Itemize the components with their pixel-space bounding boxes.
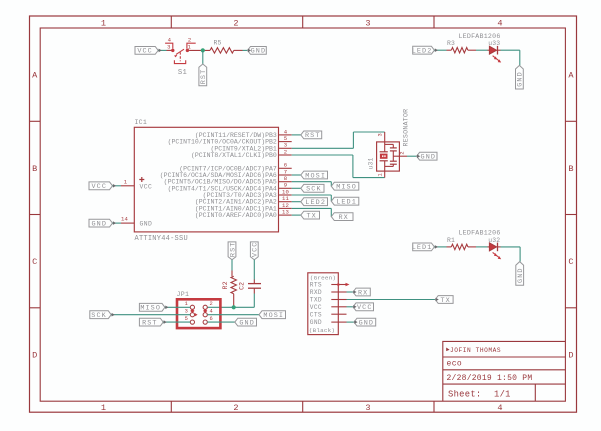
- connector FTDI body: [308, 273, 339, 335]
- node GND (flag top): [248, 47, 267, 55]
- JP1 pin 2: [203, 305, 207, 309]
- IC1 pin 6 ((PCINT7/ICP/OC0B/ADC7)PA7): [279, 167, 292, 169]
- node MISO (flag at pin 8): [331, 182, 359, 190]
- svg-text:(PCINT8/XTAL1/CLKI)PB0: (PCINT8/XTAL1/CLKI)PB0: [191, 152, 277, 159]
- svg-text:1: 1: [187, 44, 191, 51]
- wire C2 to RST net: [253, 288, 255, 293]
- FTDI RTS open-wire arrow: [346, 283, 350, 287]
- svg-text:MOSI: MOSI: [305, 172, 326, 180]
- svg-text:GND: GND: [251, 48, 267, 56]
- wire pin8 to MISO label: [292, 181, 332, 183]
- svg-text:R2: R2: [222, 281, 229, 289]
- svg-text:R5: R5: [213, 40, 221, 47]
- node GND (flag below u32): [516, 262, 524, 286]
- svg-text:R1: R1: [447, 237, 455, 244]
- svg-text:IC1: IC1: [135, 119, 147, 126]
- svg-text:3: 3: [167, 44, 170, 51]
- resonator pin 2 (GND): [393, 155, 399, 157]
- wire junction to JP1 pin 2: [207, 306, 233, 308]
- wire JP1 pin 6 to GND: [207, 321, 235, 323]
- wire pin13 to TX label: [292, 214, 301, 216]
- JP1 pin 1: [190, 305, 194, 309]
- wire LED1 flag to R1: [434, 246, 446, 248]
- svg-text:LEDFAB1206: LEDFAB1206: [458, 230, 500, 237]
- svg-text:1/1: 1/1: [494, 389, 511, 399]
- JP1 pin 3: [190, 313, 194, 317]
- svg-text:LEDFAB1206: LEDFAB1206: [458, 33, 500, 40]
- LED u32 emission arrows: [493, 252, 496, 254]
- svg-text:GND: GND: [91, 220, 107, 228]
- svg-text:6: 6: [210, 316, 213, 322]
- node MISO (flag at JP1 pin1): [139, 303, 165, 311]
- wire pin7 to MOSI label: [292, 174, 301, 176]
- wire R2 to junction: [233, 294, 235, 308]
- svg-text:GND: GND: [310, 319, 322, 326]
- svg-text:RST: RST: [200, 69, 208, 85]
- svg-text:VCC: VCC: [252, 242, 260, 258]
- drawing frame inner border: [40, 28, 565, 401]
- svg-text:(Green): (Green): [310, 274, 336, 281]
- resonator pin 3 (top): [384, 132, 386, 142]
- node VCC (flag at IC pin 1): [89, 182, 113, 190]
- node GND (flag below u33): [516, 65, 524, 89]
- IC1 pin 12 ((PCINT1/AIN0/ADC1)PA1): [279, 207, 292, 209]
- svg-text:2/28/2019 1:50 PM: 2/28/2019 1:50 PM: [447, 374, 533, 383]
- svg-text:VCC: VCC: [140, 183, 153, 190]
- node GND (flag at JP1 pin6): [235, 318, 257, 326]
- svg-text:1: 1: [101, 403, 106, 413]
- svg-text:2: 2: [400, 151, 406, 154]
- svg-text:1: 1: [378, 173, 384, 176]
- svg-text:1: 1: [185, 301, 188, 307]
- svg-text:3: 3: [378, 133, 384, 136]
- resonator internal capacitors: [385, 143, 394, 145]
- node VCC (vertical flag above C2): [250, 242, 258, 260]
- wire RST to JP1 pin 5: [163, 321, 190, 323]
- IC1 pin 9 ((PCINT4/T1/SCL/USCK/ADC4)PA4): [279, 187, 292, 189]
- svg-text:B: B: [32, 164, 37, 174]
- svg-text:RX: RX: [338, 214, 348, 222]
- resonator pin 1 (bottom): [384, 171, 386, 178]
- JP1 pin 5: [190, 320, 194, 324]
- wire SCK to JP1 pin 3: [111, 314, 190, 316]
- IC1 pin 4 ((PCINT11/RESET/DW)PB3): [279, 134, 292, 136]
- svg-text:C: C: [568, 257, 573, 267]
- node VCC (flag at FTDI): [353, 303, 374, 311]
- LED u32: [488, 246, 490, 248]
- svg-text:5: 5: [185, 316, 188, 322]
- svg-text:2: 2: [284, 148, 287, 155]
- svg-text:D: D: [568, 350, 573, 360]
- JP1 key diamonds: [190, 309, 194, 313]
- wire VCC flag to C2: [253, 260, 255, 280]
- resonator u31 body: [377, 142, 400, 171]
- S1 plunger dashed stem: [179, 52, 181, 61]
- svg-text:C2: C2: [238, 282, 245, 290]
- LED u33 emission arrows: [493, 56, 496, 58]
- svg-text:2: 2: [233, 18, 238, 28]
- frame row ticks left: [30, 120, 41, 122]
- IC1 pin 14 (GND): [121, 222, 134, 224]
- svg-text:SCK: SCK: [306, 186, 322, 194]
- wire pin3 to resonator top: [292, 147, 354, 149]
- svg-text:GND: GND: [421, 154, 437, 162]
- svg-text:A: A: [568, 71, 574, 81]
- svg-text:Sheet:: Sheet:: [448, 389, 481, 399]
- junction RST net at JP1: [232, 305, 236, 309]
- IC1 pin 7 ((PCINT6/OC1A/SDA/MOSI/ADC6)PA6): [279, 174, 292, 176]
- node RST (flag at JP1 pin5): [139, 318, 163, 326]
- node GND (flag at resonator): [417, 152, 437, 160]
- svg-text:RST: RST: [229, 242, 237, 258]
- wire RXD to RX: [347, 291, 354, 293]
- node MOSI (flag at pin 7): [301, 171, 328, 179]
- svg-text:GND: GND: [140, 221, 153, 228]
- svg-text:1: 1: [101, 18, 106, 28]
- svg-text:GND: GND: [517, 267, 525, 283]
- resistor R3: [451, 48, 468, 53]
- node GND (flag at FTDI): [354, 318, 376, 326]
- frame column ticks bottom: [170, 401, 172, 412]
- wire R1 to LED u32: [468, 246, 476, 248]
- junction on RST net: [201, 48, 205, 52]
- svg-text:MISO: MISO: [336, 184, 357, 192]
- wire pin4 to RST label: [292, 134, 301, 136]
- IC1 pin 13 ((PCINT0/AREF/ADC0)PA0): [279, 214, 292, 216]
- wire pin9 to SCK label: [292, 187, 301, 189]
- capacitor C2: [248, 283, 261, 285]
- IC1 pin 10 ((PCINT3/T0/ADC3)PA3): [279, 194, 292, 196]
- connector JP1 body: [177, 299, 220, 328]
- node LED1 (flag at pin 10): [331, 197, 359, 205]
- S1 actuator lever: [176, 49, 184, 54]
- svg-text:C: C: [32, 257, 37, 267]
- svg-text:LED1: LED1: [336, 199, 357, 207]
- frame row ticks right: [565, 120, 576, 122]
- node RX (flag at FTDI RXD): [353, 288, 370, 296]
- wire resonator pin2 to GND: [407, 155, 417, 157]
- frame column ticks top: [170, 16, 172, 28]
- svg-text:R3: R3: [447, 40, 455, 47]
- svg-text:(PCINT0/AREF/ADC0)PA0: (PCINT0/AREF/ADC0)PA0: [195, 212, 277, 219]
- wire MISO to JP1 pin 1: [165, 306, 190, 308]
- svg-text:u31: u31: [368, 157, 375, 169]
- svg-text:JP1: JP1: [177, 291, 190, 298]
- svg-text:TXD: TXD: [310, 297, 322, 304]
- svg-text:JOFIN THOMAS: JOFIN THOMAS: [450, 347, 501, 354]
- svg-text:3: 3: [365, 18, 370, 28]
- node RST (vertical flag above R2): [228, 242, 236, 260]
- node SCK (flag at pin 9): [301, 184, 324, 192]
- svg-text:eco: eco: [447, 360, 463, 369]
- resonator crystal element: [384, 142, 386, 152]
- node LED2 (flag): [413, 46, 435, 54]
- svg-text:14: 14: [121, 216, 128, 223]
- svg-text:A: A: [32, 71, 38, 81]
- IC1 pin 2 ((PCINT8/XTAL1/CLKI)PB0): [279, 154, 292, 156]
- svg-text:4: 4: [210, 309, 213, 315]
- wire pin10 to LED1 label: [292, 194, 332, 196]
- svg-text:TX: TX: [440, 297, 450, 305]
- svg-text:S1: S1: [178, 69, 187, 77]
- wire S1 pin 1 to R5: [189, 49, 210, 51]
- IC1 pin 1 (VCC): [121, 185, 134, 187]
- svg-text:RST: RST: [305, 132, 321, 140]
- IC1 pin 5 ((PCINT10/INT0/OC0A/CKOUT)PB2): [279, 141, 292, 143]
- node GND (flag at IC pin 14): [89, 219, 113, 227]
- svg-text:3: 3: [365, 403, 370, 413]
- wire TXD to TX: [347, 299, 436, 301]
- wire VCC to S1 pin 3: [158, 49, 166, 51]
- node LED2 (flag at pin 11): [301, 198, 328, 206]
- svg-text:LED2: LED2: [305, 199, 326, 207]
- svg-text:VCC: VCC: [310, 304, 322, 311]
- wire LED u32 to GND: [501, 246, 521, 248]
- svg-text:CTS: CTS: [310, 311, 322, 318]
- node RST (flag at pin 4): [301, 131, 322, 139]
- svg-text:RX: RX: [358, 289, 368, 297]
- wire RST flag to R2: [231, 260, 233, 271]
- node TX (flag at pin 13): [301, 211, 320, 219]
- svg-text:B: B: [568, 164, 573, 174]
- svg-text:MISO: MISO: [140, 305, 161, 313]
- IC1 VCC plus mark: [139, 177, 144, 182]
- svg-text:2: 2: [188, 37, 191, 44]
- resistor R5: [210, 48, 234, 53]
- svg-text:u33: u33: [488, 40, 500, 47]
- svg-text:RST: RST: [142, 319, 158, 327]
- svg-text:VCC: VCC: [357, 304, 373, 312]
- svg-text:4: 4: [497, 18, 502, 28]
- S1 plunger button: [174, 60, 185, 63]
- node TX (flag at FTDI TXD): [435, 296, 453, 304]
- svg-text:2: 2: [210, 301, 213, 307]
- svg-text:1: 1: [124, 178, 128, 185]
- node MOSI (flag at JP1 pin4): [259, 311, 286, 319]
- wire pin2 to resonator bottom: [292, 154, 353, 156]
- JP1 pin 4: [203, 313, 207, 317]
- svg-text:u32: u32: [488, 237, 500, 244]
- wire pin12 to RX label: [292, 207, 332, 209]
- svg-text:4: 4: [497, 403, 502, 413]
- wire junction down to RST flag: [202, 50, 204, 64]
- svg-text:D: D: [32, 350, 37, 360]
- svg-text:ATTINY44-SSU: ATTINY44-SSU: [135, 235, 188, 243]
- node SCK (flag at JP1 pin3): [90, 311, 111, 319]
- switch S1: [171, 49, 174, 52]
- svg-text:2: 2: [233, 403, 238, 413]
- svg-text:GND: GND: [517, 71, 525, 87]
- svg-text:MOSI: MOSI: [263, 312, 284, 320]
- IC1 pin 8 ((PCINT5/OC1B/MISO/DO/ADC5)PA5): [279, 181, 292, 183]
- svg-text:GND: GND: [239, 319, 255, 327]
- title block author text: [446, 348, 449, 352]
- wire GND pin to GND flag: [347, 321, 355, 323]
- node RX (flag at pin 12): [331, 213, 353, 221]
- svg-text:RXD: RXD: [310, 289, 322, 296]
- svg-text:VCC: VCC: [137, 48, 153, 56]
- node RST (vertical flag below S1): [199, 64, 207, 86]
- svg-text:SCK: SCK: [91, 312, 107, 320]
- svg-text:VCC: VCC: [91, 183, 107, 191]
- wire pin11 to LED2 label: [292, 201, 301, 203]
- IC1 pin 11 ((PCINT2/AIN1/ADC2)PA2): [279, 201, 292, 203]
- svg-text:(Black): (Black): [309, 327, 335, 334]
- wire LED u33 to GND: [501, 49, 520, 51]
- op IC1 body: [134, 127, 278, 232]
- wire VCC pin to VCC flag: [347, 306, 354, 308]
- svg-text:RESONATOR: RESONATOR: [403, 109, 410, 147]
- node VCC (flag top-left): [135, 47, 158, 55]
- svg-text:3: 3: [185, 309, 188, 315]
- svg-text:4: 4: [168, 37, 172, 44]
- title block: [443, 341, 566, 401]
- svg-text:LED2: LED2: [412, 48, 433, 56]
- svg-text:GND: GND: [359, 319, 375, 327]
- svg-text:LED1: LED1: [412, 244, 433, 252]
- JP1 pin 6: [203, 320, 207, 324]
- node LED1 (flag): [413, 243, 435, 251]
- wire R5 to GND: [234, 49, 243, 51]
- IC1 pin 3 ((PCINT9/XTAL2)PB1): [279, 147, 292, 149]
- wire JP1 pin 4 to MOSI: [207, 314, 259, 316]
- resistor R2: [231, 276, 236, 294]
- svg-text:RTS: RTS: [310, 282, 322, 289]
- resistor R1: [451, 244, 468, 249]
- wire LED2 flag to R3: [434, 49, 446, 51]
- wire R3 to LED u33: [468, 49, 476, 51]
- svg-text:TX: TX: [306, 212, 316, 220]
- LED u33: [488, 49, 490, 51]
- svg-text:13: 13: [282, 209, 289, 216]
